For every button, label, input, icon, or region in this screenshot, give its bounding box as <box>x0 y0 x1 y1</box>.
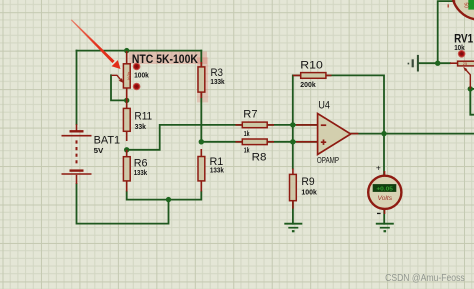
node junction dot RV1 left <box>435 61 440 66</box>
resistor R3 <box>198 62 205 98</box>
svg-text:50: 50 <box>463 3 469 9</box>
svg-text:100k: 100k <box>134 71 149 80</box>
voltmeter V1 <box>368 176 401 209</box>
op-amp plus symbol <box>321 140 326 145</box>
thermistor NTC wiper arrow <box>112 75 121 79</box>
wire RV1 column top <box>438 1 453 63</box>
ground below voltmeter <box>376 224 394 232</box>
svg-text:133k: 133k <box>210 77 225 86</box>
wire R3 top drop <box>200 51 202 68</box>
wire NTC wiper loop <box>111 75 127 100</box>
svg-text:133k: 133k <box>134 168 148 177</box>
wire cell to RV1 node <box>420 62 451 64</box>
wire R8 right to opamp plus <box>267 141 317 143</box>
svg-text:100k: 100k <box>301 188 317 197</box>
pot button NTC down <box>133 83 140 90</box>
node junction dot NTC top <box>124 48 129 53</box>
wire left rail battery top <box>76 51 78 125</box>
svg-text:200k: 200k <box>300 80 316 89</box>
partial voltmeter terminal tick <box>448 4 449 7</box>
resistor R8 <box>236 139 275 145</box>
svg-text:133k: 133k <box>210 165 225 174</box>
wire R7 right to opamp minus <box>267 124 317 126</box>
svg-text:1k: 1k <box>244 145 250 154</box>
wire battery return tee <box>77 184 169 224</box>
svg-text:33k: 33k <box>135 122 147 131</box>
op-amp U4 body <box>318 114 351 155</box>
wire R10 left drop to R9 <box>293 75 301 168</box>
potentiometer RV1 body <box>458 61 474 66</box>
svg-text:1k: 1k <box>244 129 250 138</box>
node junction dot RV1 wiper <box>468 86 473 91</box>
svg-text:R8: R8 <box>252 151 267 163</box>
thermistor NTC pins <box>126 51 128 108</box>
voltmeter V1 pins <box>384 171 386 214</box>
svg-text:BAT1: BAT1 <box>94 134 121 146</box>
svg-text:R11: R11 <box>134 111 152 123</box>
potentiometer RV1 pin <box>450 62 457 64</box>
ground below R9 <box>284 224 302 232</box>
svg-text:R9: R9 <box>301 176 314 188</box>
svg-text:CSDN @Amu-Feoss: CSDN @Amu-Feoss <box>385 272 465 284</box>
svg-text:R10: R10 <box>300 59 323 71</box>
partial voltmeter LCD <box>468 0 474 10</box>
wire RV1 wiper right stub <box>470 88 474 90</box>
potentiometer RV1 wiper <box>466 70 470 89</box>
node junction dot opamp minus <box>290 122 295 127</box>
svg-text:U4: U4 <box>318 99 330 111</box>
svg-text:5V: 5V <box>94 146 104 155</box>
wire riser from R11/R6 node to R7 <box>127 125 243 150</box>
pot button NTC up <box>133 63 140 70</box>
op-amp U4 pins <box>296 125 358 142</box>
wire RV1 wiper drop and exit <box>470 89 474 115</box>
wire voltmeter bottom to ground <box>383 209 385 224</box>
partial voltmeter top right <box>452 0 474 20</box>
resistor R1 <box>198 149 205 192</box>
voltmeter V1 LCD <box>373 184 397 192</box>
partial voltmeter pin stub <box>453 0 455 2</box>
wire R10 right feedback drop <box>326 75 384 133</box>
resistor R9 <box>290 169 297 209</box>
battery cell near RV1 <box>408 55 418 72</box>
node junction dot NTC bottom / R11 top <box>124 98 129 103</box>
resistor R6 <box>123 150 130 192</box>
node junction dot bottom tee <box>166 197 171 202</box>
node junction dot R11/R6 <box>124 147 129 152</box>
battery BAT1 <box>62 124 92 184</box>
node junction dot output/voltmeter <box>381 131 386 136</box>
wire opamp output rail <box>351 133 474 135</box>
highlight box on resistor R3 <box>197 57 208 102</box>
svg-text:+0.05: +0.05 <box>376 186 393 192</box>
wire R9 bottom to ground <box>292 201 294 224</box>
svg-text:OPAMP: OPAMP <box>317 156 339 165</box>
thermistor NTC body <box>123 64 130 88</box>
wire voltmeter top <box>383 134 385 177</box>
voltmeter V1 minus terminal label <box>377 213 381 214</box>
svg-text:+: + <box>376 162 381 172</box>
annotation red arrow <box>71 19 115 63</box>
resistor R11 <box>123 108 130 141</box>
resistor R7 <box>236 122 275 128</box>
node junction dot R3/R1/R8 <box>199 139 204 144</box>
pot button RV1 <box>458 51 465 58</box>
highlight box on NTC label <box>129 52 208 65</box>
svg-text:25: 25 <box>463 61 468 66</box>
wire bottom rail R6 to R1 <box>127 192 202 200</box>
svg-text:R7: R7 <box>243 109 257 121</box>
wire top rail from battery to R3 column <box>77 50 202 52</box>
node junction dot opamp plus <box>290 139 295 144</box>
svg-text:40%: 40% <box>126 72 131 81</box>
svg-text:NTC 5K-100K: NTC 5K-100K <box>132 52 198 66</box>
wire R3 bottom to node <box>200 92 202 142</box>
op-amp minus symbol <box>321 124 326 126</box>
svg-text:Volts: Volts <box>378 195 393 202</box>
wire node to R8 <box>201 141 242 143</box>
resistor R10 <box>293 73 332 79</box>
